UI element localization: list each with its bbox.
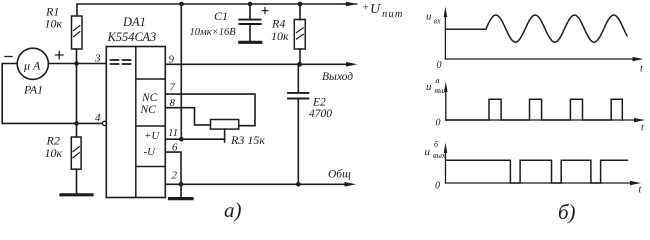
resistor R1 [72,16,83,49]
+Uпит arrow [344,3,357,5]
resistor R3 potentiometer [211,120,239,130]
label b) [558,200,576,224]
svg-text:вых: вых [435,86,448,95]
svg-text:3: 3 [94,53,101,65]
wire +U vertical from top rail [180,4,182,139]
node E2 bottom [296,182,301,187]
node R2 top [74,121,78,125]
wire pin 11 [165,138,224,140]
svg-text:а: а [436,76,440,85]
pulse train u^a [446,99,623,120]
svg-text:u: u [426,81,432,93]
svg-text:C1: C1 [214,9,228,23]
+U -U labels [144,130,161,158]
svg-text:PA1: PA1 [23,83,43,97]
svg-text:-U: -U [144,146,157,158]
svg-text:0: 0 [437,60,442,71]
svg-text:+: + [362,2,369,14]
node top rail to +U vertical [179,2,184,7]
axis Y plot1 [444,14,446,59]
DA1 divider [135,47,137,198]
svg-text:11: 11 [168,127,178,139]
+Uпит label [362,2,404,21]
svg-text:DA1: DA1 [122,15,146,29]
wire PA1 right to pin 3 [48,63,105,65]
svg-text:0: 0 [436,118,441,129]
ground below pin 2 [180,184,182,197]
comparator symbol == [111,60,131,64]
sine wave curve u_vx [446,15,628,42]
svg-text:4: 4 [95,112,101,124]
svg-text:+U: +U [144,130,160,142]
svg-text:U: U [370,2,381,17]
svg-text:9: 9 [169,54,175,66]
svg-text:а): а) [224,198,242,222]
svg-text:NC: NC [141,92,158,104]
node pin11 +U [179,137,184,142]
pin 3 label [94,53,101,65]
node pin6/pin2 [179,182,184,187]
meter PA1 [17,48,48,79]
svg-text:E2: E2 [312,97,326,109]
svg-text:10к: 10к [45,17,63,31]
wire pin 2 common rail [165,183,349,185]
ground below R2 [61,193,92,196]
svg-text:7: 7 [170,82,176,94]
svg-text:вых: вых [433,151,446,160]
svg-text:u: u [425,146,431,158]
svg-text:t: t [641,123,644,134]
wire pin 7 loop [165,94,255,126]
pin 9 output line to Vykhod arrow [165,63,351,65]
wire PA1 left down to pin 4 line [2,64,102,124]
wire R1 bottom to node [76,49,78,64]
svg-text:пит: пит [382,9,404,20]
Vykhod label [322,71,353,83]
svg-text:10мк×16В: 10мк×16В [190,27,237,38]
svg-text:10к: 10к [45,146,63,160]
R3 wiper [224,129,226,142]
C1 plus sign [262,8,268,14]
svg-text:NC: NC [140,104,157,116]
svg-text:вх: вх [434,17,441,26]
axis Y plot3 [445,150,447,183]
axis X plot2 [446,119,638,121]
svg-text:Общ: Общ [328,169,351,181]
pulse train u' inverted [446,160,628,183]
capacitor E2 [297,64,299,92]
svg-text:2: 2 [172,170,178,182]
plus sign [56,51,64,58]
axis X plot3 [446,182,635,184]
Obshch label [328,169,351,181]
op-amp U comparator DA1 box [106,47,165,198]
svg-text:Выход: Выход [322,71,353,83]
svg-text:t: t [639,185,642,196]
node R1/PA1/pin3 [74,61,79,66]
svg-text:μ А: μ А [23,59,41,73]
NC labels [140,92,158,116]
svg-text:8: 8 [170,97,176,109]
svg-text:4700: 4700 [309,108,332,120]
resistor R2 [71,137,81,169]
svg-text:6: 6 [172,142,178,154]
svg-text:б): б) [558,200,576,224]
label a) [224,198,242,222]
wire pin 8 to R3 left [165,108,210,125]
node output R4/E2 [297,62,302,67]
svg-text:0: 0 [435,181,440,192]
DA1 cell dividers [136,79,166,167]
svg-text:t: t [640,64,643,75]
DA1 title [107,15,157,44]
wire top supply rail [77,4,351,16]
svg-text:10к: 10к [271,29,289,43]
svg-text:R3 15к: R3 15к [230,133,265,147]
axis X plot1 [445,58,637,60]
ground below C1 [240,41,261,44]
minus sign [5,56,12,58]
node top rail C1 [248,2,253,7]
svg-text:б: б [434,140,439,149]
resistor R4 [299,4,301,20]
capacitor C1 [249,4,251,19]
axis Y plot2 [445,89,447,120]
wire pin 6 down to common [165,152,181,184]
svg-text:К554СА3: К554СА3 [107,30,157,44]
svg-text:u: u [426,11,432,23]
wire divider vertical R1 node to R2 node [76,64,78,138]
node top rail R4 [298,2,303,7]
wire R2 bottom [76,169,78,193]
node 4 input circle [102,121,106,125]
